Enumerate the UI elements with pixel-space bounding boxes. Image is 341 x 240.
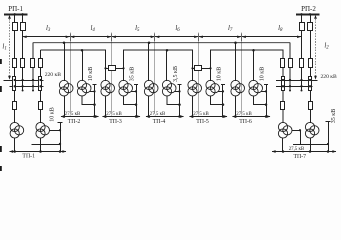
cell box on right bay1	[282, 77, 285, 91]
svg-text:220 кВ: 220 кВ	[321, 74, 338, 80]
wire ТП-4 T1 secondary to 27.5kV bus	[148, 96, 150, 117]
node ТП-6 bus / T1	[234, 115, 237, 118]
node ТП-1 stub / tertiary	[59, 129, 61, 131]
dim arrow pair left of tick	[151, 35, 155, 38]
dimension tick / station axis at x=241.5	[241, 33, 243, 115]
switch on right bay4 (220kV yard)	[309, 59, 313, 68]
svg-text:ТП-4: ТП-4	[153, 119, 166, 125]
svg-text:ТП-3: ТП-3	[109, 119, 122, 125]
node busbar РП-2 / bay	[300, 13, 303, 16]
wire ТП-5 T1 secondary to 27.5kV bus	[192, 96, 194, 117]
outer feeder drop at right yard bay2	[289, 43, 291, 91]
svg-text:10 кВ: 10 кВ	[217, 67, 223, 81]
wire ТП-5 T2 tertiary link	[218, 91, 223, 93]
transformer ТП-4 T2 (three-winding: top/bottom/right circles)	[162, 80, 176, 96]
dimension l2 (РП-2 to 220kV bus)	[314, 15, 317, 80]
svg-text:35 кВ: 35 кВ	[331, 109, 337, 123]
riser ТП-4 left transformer from outer feeder	[148, 43, 150, 81]
riser ТП-4 right transformer from inner feeder	[166, 50, 168, 81]
riser ТП-6 right transformer from inner feeder	[253, 50, 255, 81]
node ТП-2 bus / T1	[63, 115, 66, 118]
dim arrow pair left of tick	[237, 35, 241, 38]
dimension chain line l3..l8	[23, 36, 302, 38]
node outer feeder / ТП-6 left riser	[234, 41, 237, 44]
node bay/bus2	[39, 85, 41, 87]
wire ТП-3 T2 secondary elbow to stub	[124, 96, 137, 105]
terminal cap ТП-3 stub	[134, 84, 138, 86]
switch on bay1 (220kV yard)	[13, 59, 17, 68]
breaker on bay2 (upper)	[21, 23, 26, 31]
svg-text:10 кВ: 10 кВ	[50, 107, 56, 121]
node ТП-1 bus / T1	[13, 150, 16, 153]
node ТП-3 bus / T1	[104, 115, 107, 118]
27.5 kV bus of ТП-3 with outgoing feeder arrows	[102, 115, 140, 118]
node ТП-1 bus / stub	[59, 150, 62, 153]
inner feeder section 2 (ТП-3 to ТП-5)	[124, 50, 193, 81]
node bay/bus1	[21, 79, 23, 81]
svg-text:10 кВ: 10 кВ	[260, 67, 266, 81]
busbar РП-2	[296, 14, 320, 16]
svg-text:3,5 кВ: 3,5 кВ	[173, 66, 179, 82]
terminal cap ТП-6 stub	[264, 84, 268, 86]
wire ТП-2 T2 secondary elbow to stub	[82, 96, 95, 105]
wire right bay3 (РП-2 feeder)	[301, 14, 303, 91]
scan edge marks (left border)	[0, 59, 2, 171]
node ТП-6 stub / tertiary	[265, 90, 267, 92]
node ТП-3 bus / stub	[135, 115, 138, 118]
27.5 kV bus of ТП-6 with outgoing feeder arrows	[232, 115, 270, 118]
wire ТП-2 T1 secondary to 27.5kV bus	[64, 96, 66, 117]
cell box on right bay4	[309, 77, 312, 91]
riser ТП-6 left transformer from outer feeder	[235, 43, 237, 81]
switch above ТП-7 right transformer	[309, 102, 313, 110]
svg-text:ТП-2: ТП-2	[68, 119, 81, 125]
inner 27.5kV feeder line section 1 (РП-1 to ТП-3)	[41, 50, 106, 81]
27.5 kV bus of ТП-2 with outgoing feeder arrows	[61, 115, 99, 118]
stub ТП-7 centre	[300, 130, 302, 144]
dim arrow pair left of tick	[194, 35, 198, 38]
svg-text:35 кВ: 35 кВ	[130, 67, 136, 81]
transformer ТП-3 T1 (three-winding: top/bottom/right circles)	[101, 80, 115, 96]
svg-text:ТП-7: ТП-7	[294, 154, 307, 160]
node right bay/bus2	[289, 85, 291, 87]
wire bay2 (РП-1 feeder)	[22, 14, 24, 91]
riser ТП-2 left transformer from outer feeder	[64, 43, 66, 81]
wire ТП-3 T1 secondary to 27.5kV bus	[105, 96, 107, 117]
dim arrow pair right of tick	[242, 35, 246, 38]
dimension tick / station axis at x=70	[70, 33, 72, 115]
node bay2 stub end	[22, 90, 24, 92]
district feeder stub ТП-1 (10 кВ)	[60, 122, 62, 152]
switch on bay3 (220kV yard)	[31, 59, 35, 68]
node right bay/bus2	[282, 85, 284, 87]
transformer ТП-3 T2 (three-winding: top/bottom/right circles)	[119, 80, 133, 96]
node ТП-6 bus / stub	[265, 115, 268, 118]
27.5 kV bus of ТП-5 with outgoing feeder arrows	[189, 115, 227, 118]
transformer ТП-2 T1 (three-winding: top/bottom/right circles)	[59, 80, 73, 96]
node ТП-5 bus / stub	[222, 115, 225, 118]
terminal cap ТП-2 stub	[92, 84, 96, 86]
wire ТП-6 T2 tertiary link	[261, 91, 266, 93]
cell box on bay4	[39, 77, 42, 91]
node ТП-5 stub / tertiary	[222, 90, 224, 92]
switch on right bay2 (220kV yard)	[289, 59, 293, 68]
wire ТП-5 T2 secondary elbow to stub	[211, 96, 224, 105]
dim arrow pair left of tick	[107, 35, 111, 38]
node ТП-7 stub / tertiary	[299, 129, 301, 131]
transformer ТП-6 T1 (three-winding: top/bottom/right circles)	[231, 80, 245, 96]
busbar РП-1	[4, 14, 28, 16]
dimension l1 (РП-1 to 220kV bus)	[8, 15, 11, 80]
svg-text:ТП-5: ТП-5	[196, 119, 209, 125]
district feeder stub ТП-2	[94, 85, 96, 117]
transformer ТП-1 T1 (three-winding: top/bottom/right circles)	[10, 122, 24, 138]
dim arrow at РП-1	[23, 35, 27, 38]
node ТП-1 bus / T2	[39, 150, 42, 153]
breaker on bay1 (upper)	[13, 23, 18, 31]
wire ТП-7 T2 secondary to bus	[310, 138, 312, 152]
transformer ТП-5 T2 (three-winding: top/bottom/right circles)	[206, 80, 220, 96]
svg-text:10 кВ: 10 кВ	[88, 67, 94, 81]
terminal cap ТП-4 stub	[177, 84, 181, 86]
wire ТП-1 T2 secondary to bus	[40, 138, 42, 152]
wire ТП-2 T2 tertiary link	[89, 91, 94, 93]
node ТП-7 bus / T1	[282, 150, 285, 153]
transformer ТП-6 T2 (three-winding: top/bottom/right circles)	[249, 80, 263, 96]
220 kV bus 1 (right yard)	[276, 80, 318, 82]
breaker on right bay4 (upper)	[308, 23, 313, 31]
node right bay/bus1	[282, 79, 284, 81]
node ТП-4 bus / T1	[148, 115, 151, 118]
transformer ТП-2 T2 (three-winding: top/bottom/right circles)	[77, 80, 91, 96]
node ТП-1 stub / tie	[59, 143, 61, 145]
transformer ТП-4 T1 (three-winding: top/bottom/right circles)	[144, 80, 158, 96]
svg-text:27,5 кВ: 27,5 кВ	[289, 147, 305, 152]
dim arrow pair right of tick	[199, 35, 203, 38]
220 kV bus 2 (left yard)	[10, 86, 44, 88]
dimension tick / station axis at x=155	[154, 33, 156, 115]
node busbar РП-1 / bay	[21, 13, 24, 16]
node busbar РП-1 / bay	[13, 13, 16, 16]
dim arrow pair left of tick	[66, 35, 70, 38]
wire ТП-7 T1 secondary to bus	[282, 138, 284, 152]
node ТП-5 bus / T1	[191, 115, 194, 118]
node ТП-7 bus / T2	[309, 150, 312, 153]
node right bay/bus1	[289, 79, 291, 81]
svg-text:ТП-1: ТП-1	[22, 154, 35, 160]
terminal cap ТП-1 stub	[58, 122, 63, 124]
node bay/bus2	[32, 85, 34, 87]
switch above ТП-1 left transformer	[13, 102, 17, 110]
node right bay2 stub end	[289, 90, 291, 92]
wire ТП-1 tie to stub	[32, 144, 61, 146]
wire bay3 rises to outer feeder line	[32, 43, 34, 91]
svg-text:РП-1: РП-1	[8, 5, 23, 13]
district feeder stub ТП-6	[266, 85, 268, 117]
dim arrow pair right of tick	[70, 35, 74, 38]
transformer ТП-1 T2 (three-winding: top/bottom/right circles)	[36, 122, 50, 138]
dim arrow pair right of tick	[112, 35, 116, 38]
wire bay1 (РП-1 feeder to ТП-1 left transformer)	[14, 14, 16, 123]
transformer ТП-5 T1 (three-winding: top/bottom/right circles)	[188, 80, 202, 96]
svg-text:27,5 кВ: 27,5 кВ	[193, 112, 209, 117]
sectioning link with switch between risers of ТП-3	[104, 66, 124, 71]
node ТП-4 stub / tertiary	[178, 90, 180, 92]
node busbar РП-2 / bay	[309, 13, 312, 16]
switch on bay2 (220kV yard)	[21, 59, 25, 68]
node bay/bus1	[32, 79, 34, 81]
wire bay4 rises to inner feeder line / down to ТП-1 right transformer	[40, 50, 42, 123]
wire ТП-1 T2 tertiary link	[49, 130, 60, 132]
terminal cap ТП-5 stub	[221, 84, 225, 86]
node bay/bus1	[39, 79, 41, 81]
transformer ТП-7 T1 (three-winding: top/bottom/right circles)	[278, 122, 292, 138]
node ТП-5 stub / T2 secondary	[222, 103, 225, 106]
node bay/bus2	[14, 85, 16, 87]
wire ТП-4 T2 tertiary link	[174, 91, 179, 93]
node ТП-2 stub / T2 secondary	[93, 103, 96, 106]
district feeder stub ТП-7 (35 кВ)	[328, 122, 330, 152]
220 kV bus 1 (left yard)	[4, 80, 44, 82]
27.5 kV bus of ТП-7 with feeder arrows	[272, 150, 336, 153]
node right bay/bus1	[300, 79, 302, 81]
node bay/bus2	[21, 85, 23, 87]
27.5 kV bus of ТП-4 with outgoing feeder arrows	[146, 115, 184, 118]
wire ТП-3 T2 tertiary link	[131, 91, 136, 93]
dimension tick / station axis at x=111.5	[111, 33, 113, 115]
node bay/bus1	[14, 79, 16, 81]
district feeder stub ТП-5	[222, 85, 224, 117]
node ТП-2 stub / tertiary	[93, 90, 95, 92]
svg-text:27,5 кВ: 27,5 кВ	[236, 112, 252, 117]
switch on right bay1 (220kV yard)	[281, 59, 285, 68]
node outer feeder / ТП-2 left riser	[63, 41, 66, 44]
dimension tick / station axis at x=198.5	[198, 33, 200, 115]
wire ТП-1 T1 secondary to bus	[14, 138, 16, 152]
node inner feeder / ТП-4 right riser	[166, 49, 169, 52]
breaker on right bay3 (upper)	[300, 23, 305, 31]
switch above ТП-7 left transformer	[281, 102, 285, 110]
node ТП-2 bus / stub	[93, 115, 96, 118]
wire ТП-7 tie to 35kV stub	[293, 144, 328, 146]
inner feeder section 3 (ТП-5 to РП-2 yard)	[211, 50, 284, 123]
terminal cap ТП-7 stub	[326, 121, 331, 123]
node ТП-3 stub / tertiary	[135, 90, 137, 92]
svg-text:27,5 кВ: 27,5 кВ	[65, 112, 81, 117]
node bay3 stub end	[32, 90, 34, 92]
cell box on bay1	[13, 77, 16, 91]
sectioning link with switch between risers of ТП-5	[191, 66, 211, 71]
220 kV bus 2 (right yard)	[276, 86, 313, 88]
wire ТП-4 T2 secondary elbow to stub	[167, 96, 180, 105]
svg-text:ТП-6: ТП-6	[239, 119, 252, 125]
wire right bay4 (РП-2 feeder to ТП-7 right transformer)	[310, 14, 312, 123]
transformer ТП-7 T2 (three-winding: top/bottom/right circles)	[305, 122, 319, 138]
riser ТП-2 right transformer from inner feeder	[82, 50, 84, 81]
svg-text:27,5 кВ: 27,5 кВ	[150, 112, 166, 117]
node ТП-7 35kV stub / tie	[327, 143, 329, 145]
district feeder stub ТП-4	[179, 85, 181, 117]
27.5 kV bus of ТП-1 with feeder arrow	[9, 150, 66, 153]
wire ТП-6 T2 secondary elbow to stub	[254, 96, 267, 105]
node ТП-7 bus / 35kV stub	[327, 150, 330, 153]
node right bay3 stub end	[301, 90, 303, 92]
wire ТП-7 T1 tertiary link	[292, 130, 300, 132]
node right bay/bus2	[300, 85, 302, 87]
node right bay/bus1	[309, 79, 311, 81]
svg-text:РП-2: РП-2	[301, 5, 316, 13]
wire ТП-6 T1 secondary to 27.5kV bus	[235, 96, 237, 117]
svg-text:220 кВ: 220 кВ	[45, 72, 62, 78]
outer 27.5kV feeder line (upper)	[33, 42, 290, 44]
switch above ТП-1 right transformer	[39, 102, 43, 110]
node ТП-3 stub / T2 secondary	[135, 103, 138, 106]
node outer feeder / ТП-4 left riser	[148, 41, 151, 44]
dim arrow pair right of tick	[155, 35, 159, 38]
node inner feeder / ТП-2 right riser	[81, 49, 84, 52]
dim arrow at РП-2	[297, 35, 301, 38]
node ТП-4 bus / stub	[178, 115, 181, 118]
node ТП-4 stub / T2 secondary	[178, 103, 181, 106]
svg-text:27,5 кВ: 27,5 кВ	[106, 112, 122, 117]
node ТП-6 stub / T2 secondary	[265, 103, 268, 106]
district feeder stub ТП-3	[136, 85, 138, 117]
switch on right bay3 (220kV yard)	[300, 59, 304, 68]
switch on bay4 (220kV yard)	[39, 59, 43, 68]
node right bay/bus2	[309, 85, 311, 87]
node inner feeder / ТП-6 right riser	[252, 49, 255, 52]
